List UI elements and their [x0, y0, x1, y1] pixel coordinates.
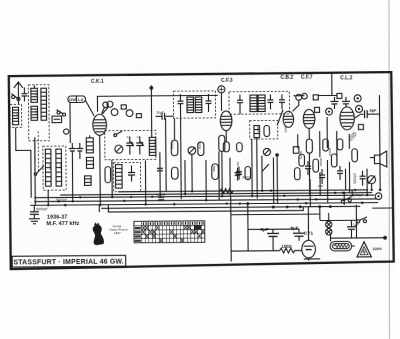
decoupling cap right a: [330, 97, 338, 109]
wire top feed vertical: [150, 85, 152, 137]
wire lamp top feed: [328, 213, 330, 217]
oscillator resistor block 3: [85, 176, 92, 186]
capacitor mid small: [157, 168, 163, 171]
capacitor electrolytic 8uF no2: [293, 229, 305, 241]
wire vertical to first electrolytic: [247, 204, 249, 251]
junction dots on buses: [64, 188, 382, 210]
IF transformer 2 dashed box: [229, 91, 290, 114]
svg-text:10000: 10000: [170, 141, 174, 150]
junction dot top feed: [149, 86, 153, 90]
resistor right block d: [352, 149, 358, 162]
wire extra drop f: [309, 179, 311, 207]
AVC resistor 10000 lower: [171, 167, 178, 179]
antenna coil winding: [13, 107, 19, 125]
octode tube CK1: [93, 114, 107, 135]
oscillator trimmer cap: [128, 166, 135, 182]
variable capacitor 2: [136, 136, 143, 154]
wire top right rail: [293, 95, 304, 97]
svg-text:5000pF: 5000pF: [36, 207, 48, 211]
wire bottom power rail: [231, 250, 279, 252]
band coil L5: [56, 149, 62, 186]
wire extra drop j: [229, 158, 231, 196]
wire AVC line: [144, 160, 146, 204]
tone cap right bottom: [360, 171, 366, 186]
resistor below CF3 c: [237, 143, 243, 152]
bus wire 5: [30, 203, 378, 206]
terminal box LA: [121, 105, 126, 109]
wire heater line lower: [108, 203, 303, 212]
wire extra drop k: [272, 157, 274, 203]
wire extra drop c: [251, 139, 253, 196]
IF2 primary coil: [250, 95, 257, 112]
volume potentiometer: [188, 147, 196, 155]
svg-text:8µF: 8µF: [260, 227, 268, 232]
cathode resistor CF7: [299, 154, 305, 166]
wire right block extra h: [348, 162, 350, 193]
svg-text:0,20: 0,20: [48, 163, 52, 169]
wire lamps chain: [328, 217, 330, 221]
capacitor 1uF mains: [347, 220, 356, 238]
resistor 4 Mohm: [212, 164, 219, 180]
wire right block extra d: [326, 117, 328, 148]
IF1 primary coil: [187, 97, 194, 113]
terminal box R: [136, 114, 141, 118]
svg-text:GW: GW: [69, 98, 76, 102]
resistor below CF3 b: [223, 142, 229, 152]
wire mains riser: [355, 205, 357, 238]
wire extra drop a: [184, 160, 186, 194]
wire extra drop b: [205, 160, 207, 200]
svg-text:20000: 20000: [328, 147, 332, 156]
svg-text:8µF: 8µF: [370, 108, 378, 113]
wire rectifier bottom lead: [304, 258, 320, 260]
wire extra drop i: [218, 151, 220, 200]
node circle N: [355, 105, 362, 112]
terminal box S: [315, 107, 320, 112]
wire right block drops: [308, 153, 310, 195]
node circle Be: [296, 94, 302, 100]
page scan edge line: [388, 0, 391, 339]
svg-text:1000: 1000: [153, 141, 157, 148]
wire bottom right: [371, 184, 373, 190]
wire speaker leads: [370, 157, 374, 159]
warning triangle 220V: [357, 242, 372, 257]
resistor right block c: [337, 139, 343, 150]
IF2 tuning cap A: [237, 95, 243, 110]
mains node dot: [383, 236, 387, 240]
wire detector drops: [256, 138, 258, 199]
wire right block extra c: [319, 172, 321, 195]
node circle M: [354, 95, 361, 102]
capacitor 50pF coupling: [152, 113, 174, 120]
svg-text:C.F.7: C.F.7: [301, 75, 313, 81]
capacitor antenna series: [21, 87, 27, 101]
ground: [29, 219, 40, 224]
node circle W left: [302, 93, 308, 99]
resistor M box: [293, 147, 299, 154]
tone potentiometer: [368, 176, 376, 184]
node circle Tb: [126, 110, 133, 117]
wire mid drops: [191, 154, 193, 191]
svg-text:10000: 10000: [299, 151, 303, 160]
wire CL2 plate to output cap: [354, 114, 363, 118]
wire vertical feed left of power table: [230, 196, 233, 261]
wire extra drop e: [276, 155, 278, 203]
node circle A bottom right: [375, 193, 382, 200]
pentode tube CF3: [220, 111, 232, 131]
wire lamp feed horizontal: [320, 219, 357, 221]
svg-text:8µF: 8µF: [290, 226, 298, 231]
input bandfilter dashed box: [28, 85, 49, 141]
wire bandfilter to band coils: [34, 137, 36, 162]
resistor detector block: [245, 167, 251, 180]
resistor right block a: [323, 139, 329, 151]
capacitor right block c: [337, 166, 343, 180]
svg-text:1μF: 1μF: [353, 223, 359, 227]
capacitor detector lower: [234, 168, 240, 181]
IF1 tuning cap B: [205, 94, 211, 112]
wire IF1 drops: [180, 112, 183, 199]
wire right block extra f: [336, 131, 338, 166]
svg-text:0,2: 0,2: [34, 92, 38, 96]
svg-text:C.B.2: C.B.2: [280, 75, 293, 81]
svg-text:220V: 220V: [373, 246, 383, 251]
wire border stub: [331, 73, 333, 95]
resistor left of osc box: [105, 167, 111, 183]
node circle Tu: [111, 109, 118, 116]
wire horizontal power feed: [248, 228, 299, 230]
oscillator trimmer circle: [64, 129, 69, 134]
wire rectifier to lamps: [319, 207, 321, 220]
wire right block extra b: [319, 131, 321, 157]
resistor 150 ohm zigzag: [280, 248, 303, 253]
wire band coil drops: [47, 190, 49, 205]
coil L3: [41, 88, 47, 120]
AVC resistor 10000 upper: [171, 140, 178, 156]
antenna switch contacts: [11, 93, 20, 100]
capacitor right block a: [305, 161, 311, 175]
resistor 5000 mid: [198, 142, 204, 156]
oscillator padder coil: [115, 165, 122, 189]
grid resistor CL2: [313, 159, 319, 172]
wire mains B line: [331, 237, 386, 239]
svg-text:1897: 1897: [114, 231, 121, 235]
svg-text:C.F.3: C.F.3: [221, 78, 233, 84]
wavechange label box GW LA: [68, 96, 86, 103]
antenna: [14, 82, 23, 94]
wire extra drop d: [261, 156, 263, 191]
mains switch 2: [357, 217, 367, 223]
wire mains vertical stub: [330, 235, 332, 241]
dashed link left: [37, 131, 39, 171]
svg-text:50pF: 50pF: [157, 111, 164, 115]
table X marks: [142, 225, 204, 242]
svg-text:0,1: 0,1: [127, 135, 131, 139]
IF2 tertiary cap: [279, 94, 285, 109]
svg-text:100: 100: [236, 161, 240, 166]
wire top rail gap fill: [318, 94, 337, 96]
logo figure: [93, 222, 104, 245]
tuning gang dashed box: [105, 130, 156, 159]
band coil dashed box: [43, 146, 66, 190]
oscillator coil block 2: [86, 157, 93, 168]
band switch lever: [34, 166, 44, 176]
wire CF3 resistor drops: [221, 151, 223, 196]
coil L1: [31, 88, 38, 102]
oscillator section dashed box: [113, 162, 140, 191]
wire CF3 grid cap: [220, 93, 222, 111]
wave switch contact pair: [57, 110, 66, 117]
svg-text:5000: 5000: [284, 125, 288, 132]
loudspeaker: [374, 151, 386, 167]
svg-text:1μF: 1μF: [318, 184, 323, 188]
svg-text:50000: 50000: [319, 157, 323, 166]
resistor below CF3 a: [219, 135, 225, 151]
duodiode tube CB2: [283, 111, 294, 127]
IF1 tuning cap A: [177, 94, 183, 112]
wire table feed: [98, 205, 100, 212]
wire IF2 drops: [239, 110, 241, 114]
wire switch box to tube: [85, 100, 94, 116]
terminal box right low: [358, 125, 363, 130]
wire antenna coil to ground bus: [16, 127, 32, 198]
capacitor electrolytic 8uF no1: [267, 229, 279, 251]
svg-text:4MΩ: 4MΩ: [212, 165, 216, 172]
wire antenna down: [17, 93, 19, 104]
coil L2: [31, 106, 38, 120]
capacitor screen CF3: [236, 167, 242, 180]
table row labels: [135, 227, 141, 242]
wire electrolytic drops: [71, 159, 73, 201]
junction dots extra: [47, 189, 373, 207]
wire avc long left: [165, 118, 168, 191]
wire grid bus CK1 to CF3: [97, 95, 218, 111]
wire drop to filter cap: [33, 205, 35, 211]
svg-text:LA: LA: [78, 98, 83, 102]
svg-text:5000pF: 5000pF: [352, 193, 364, 197]
output tube CL2: [340, 107, 355, 130]
mains switch: [341, 197, 352, 204]
svg-text:0,50: 0,50: [15, 112, 19, 118]
variable capacitor 1: [126, 137, 133, 155]
wire extra drop h: [366, 169, 368, 195]
wire CF7 CL2 drops: [308, 129, 310, 140]
wire right border link: [372, 207, 392, 209]
wire heater return: [231, 213, 320, 216]
detector coil: [254, 126, 260, 138]
svg-text:0,1: 0,1: [137, 135, 141, 139]
wire bandfilter internal: [33, 85, 35, 88]
bus wire 3: [34, 195, 374, 198]
detector resistor: [264, 125, 270, 136]
wire HT rail horizontal: [341, 82, 343, 86]
tuning indicator circle: [115, 145, 123, 153]
AGC diagonal arrow: [277, 110, 283, 126]
wire right block extra g: [348, 134, 350, 149]
output capacitor 8uF: [365, 110, 380, 118]
wire right block extra a: [297, 134, 299, 148]
schematic frame: [9, 72, 394, 269]
table header ticks: [143, 222, 203, 225]
node circle C: [326, 108, 333, 115]
IF2 secondary coil: [258, 95, 265, 112]
IF transformer 1 dashed box: [173, 91, 215, 118]
svg-text:1000: 1000: [256, 126, 260, 133]
terminal box W: [313, 95, 318, 100]
bus wire 1: [118, 190, 368, 192]
wire heater drop b: [351, 190, 353, 196]
svg-text:0,20: 0,20: [59, 163, 63, 169]
grid cap circle CF3: [218, 86, 225, 93]
padder coil 1000: [149, 137, 156, 155]
junction dot detector: [275, 153, 279, 157]
wire center drops: [111, 160, 113, 197]
node circle P: [107, 101, 113, 107]
wire grid cap to tube: [102, 107, 105, 114]
wire screen mid: [159, 152, 161, 196]
capacitor 5000pF: [30, 212, 39, 219]
dial lamp 2: [326, 229, 332, 235]
dial lamp 1: [326, 221, 332, 227]
screen resistor CF7: [306, 139, 312, 153]
valve table grid: [134, 221, 205, 243]
grid cap circle CK1: [103, 102, 108, 107]
svg-text:0,2: 0,2: [34, 110, 38, 114]
wire CB2 connects: [292, 100, 298, 111]
pentode tube CF7: [303, 109, 315, 128]
decoupling cap right b: [342, 97, 350, 107]
wire GW box drops: [69, 103, 71, 143]
wire right block extra e: [326, 160, 328, 203]
detector pot circle: [263, 148, 270, 155]
resistor heater zigzag on bus: [220, 189, 233, 194]
wire extra drop g: [344, 169, 346, 190]
title box: [12, 255, 126, 267]
wire CF3 drops: [225, 131, 227, 142]
antenna coil dashed box: [10, 104, 22, 127]
wire left ground column: [34, 137, 37, 205]
ballast resistor UR oval: [330, 241, 352, 251]
band coil L4: [45, 149, 51, 186]
svg-text:M.F. 477 kHz: M.F. 477 kHz: [46, 221, 79, 227]
svg-text:STASSFURT · IMPERIAL 46 GW.: STASSFURT · IMPERIAL 46 GW.: [13, 259, 124, 267]
diagonal arm detector: [262, 164, 269, 172]
gang switch: [114, 131, 122, 136]
interstage cap 10000: [158, 197, 164, 200]
padder capacitor box: [52, 116, 62, 123]
electrolytic pair left: [69, 143, 84, 159]
resistor right mid: [294, 168, 300, 180]
wire heater drop a: [343, 193, 345, 205]
svg-text:C.K.1: C.K.1: [91, 79, 104, 85]
bus wire 2: [60, 193, 372, 195]
rectifier tube CY1: [301, 207, 315, 261]
wire CK1 drops: [99, 135, 102, 204]
svg-text:1936-37: 1936-37: [47, 215, 68, 221]
IF2 tuning cap B: [267, 94, 273, 109]
svg-text:5000pF: 5000pF: [353, 173, 357, 184]
terminal box B: [337, 93, 342, 98]
bus wire 6: [101, 206, 360, 208]
resistor right block b: [331, 154, 337, 167]
wire oscillator drops: [89, 135, 91, 137]
capacitor right block b: [319, 169, 325, 184]
bus wire 4: [34, 199, 376, 202]
wire node leads: [103, 107, 109, 114]
wire right HT rail: [378, 95, 381, 190]
IF1 secondary coil: [195, 97, 202, 113]
wire ballast to line: [352, 245, 355, 247]
svg-text:5000: 5000: [198, 142, 202, 149]
wire avc chain: [173, 118, 175, 140]
detector dashed box: [250, 120, 278, 139]
oscillator coil block 1: [86, 138, 93, 153]
svg-text:C.L.2: C.L.2: [340, 75, 352, 81]
